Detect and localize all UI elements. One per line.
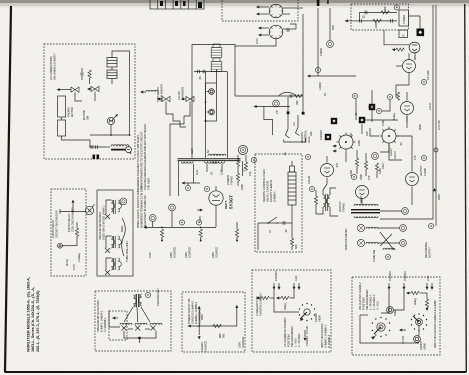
- wire V330: [329, 8, 331, 40]
- svg-text:180K: 180K: [240, 184, 244, 190]
- circled letter choke: [126, 147, 132, 155]
- arrow heater left: [183, 182, 200, 184]
- B+ line: [145, 226, 216, 228]
- rotary switch SW1: [299, 303, 315, 322]
- choke net1: [111, 200, 121, 214]
- resistor RB1: [160, 229, 163, 237]
- wires phasing: [124, 307, 133, 322]
- page border right: [465, 4, 467, 372]
- svg-text:5V: 5V: [210, 172, 214, 175]
- svg-text:50K: 50K: [294, 244, 298, 249]
- arrow up: [72, 203, 74, 207]
- pilot lamp L1: [207, 89, 215, 95]
- wire down left: [257, 223, 259, 250]
- svg-text:240V: 240V: [169, 252, 173, 258]
- jack spring 2: [296, 127, 300, 136]
- tuner box: [399, 10, 409, 26]
- svg-text:IF: IF: [402, 34, 406, 37]
- svg-text:5Y3GT: 5Y3GT: [229, 195, 234, 209]
- svg-text:AS SHOWN IN "PHONO": AS SHOWN IN "PHONO": [283, 317, 287, 347]
- ps stub up 2: [236, 308, 238, 326]
- svg-text:RECT.: RECT.: [224, 200, 228, 209]
- svg-text:6V6: 6V6: [331, 25, 335, 30]
- choke net3: [111, 258, 121, 270]
- tube out2 12AB5: [406, 165, 419, 196]
- svg-text:PHOTO RELAY: PHOTO RELAY: [67, 213, 71, 232]
- circled letter rect: [204, 186, 209, 191]
- connector JA1: [71, 87, 79, 96]
- circled ref RC3: [352, 93, 357, 98]
- wire T1 left down: [178, 161, 180, 196]
- ps stub up 1: [198, 309, 200, 326]
- motor M: [107, 114, 117, 124]
- svg-text:1 - AUX: 1 - AUX: [294, 338, 298, 347]
- tube AF AMP: [396, 53, 416, 85]
- svg-text:6V: 6V: [323, 93, 327, 96]
- svg-text:115V: 115V: [190, 148, 194, 154]
- resistor b2b: [426, 293, 428, 299]
- resistor RL1: [236, 158, 239, 166]
- AC connections dashed box: [44, 44, 135, 159]
- remote jack bracket: [284, 138, 306, 142]
- test point SP1: [400, 225, 407, 232]
- svg-text:FRONT: FRONT: [419, 341, 423, 350]
- svg-text:WURLITZER MODELS 1859-A, -(S),: WURLITZER MODELS 1859-A, -(S), 1863-A,: [27, 277, 31, 352]
- svg-text:2Meg: 2Meg: [413, 298, 417, 305]
- svg-text:SOURCE: SOURCE: [215, 247, 219, 258]
- svg-text:6BN4: 6BN4: [413, 53, 417, 60]
- resistor RL3: [236, 173, 239, 181]
- svg-text:.05: .05: [283, 152, 287, 156]
- resistor RR1: [396, 92, 399, 100]
- choke coil: [111, 145, 123, 147]
- svg-text:SOURCE: SOURCE: [204, 341, 208, 352]
- wire V227: [227, 72, 229, 158]
- ballast cylinder B2: [211, 58, 222, 72]
- circled ref au6: [305, 154, 310, 159]
- resistor ROT: [314, 196, 317, 204]
- svg-text:TUNER: TUNER: [402, 15, 406, 24]
- wire steps to jack: [264, 107, 273, 136]
- svg-text:6.3V: 6.3V: [195, 169, 199, 175]
- pot P-b3: [414, 336, 421, 343]
- svg-text:2.2Meg: 2.2Meg: [77, 253, 81, 262]
- rail link: [359, 12, 361, 21]
- wire motor loop: [110, 125, 112, 135]
- svg-text:230V: 230V: [184, 252, 188, 258]
- capacitor CI3: [391, 19, 393, 23]
- svg-text:5W: 5W: [222, 334, 226, 338]
- black square pad P1: [369, 104, 375, 110]
- svg-text:SW: SW: [86, 115, 90, 120]
- svg-text:12BA6: 12BA6: [319, 48, 323, 56]
- svg-text:XP: XP: [275, 110, 279, 114]
- wires in1: [273, 290, 275, 299]
- svg-text:PHONO: PHONO: [388, 271, 392, 281]
- interlock tube socket S1: [256, 4, 303, 18]
- svg-text:TONE SW: TONE SW: [372, 249, 376, 262]
- relay transistor PR1: [85, 205, 94, 215]
- black square pad P2: [359, 117, 365, 123]
- svg-text:PANEL LIGHTS, SOCKETS AND: PANEL LIGHTS, SOCKETS AND: [136, 190, 140, 228]
- svg-text:3.3: 3.3: [292, 122, 296, 126]
- resistor 2.2meg in1: [261, 296, 269, 299]
- svg-text:7Ω: 7Ω: [243, 169, 247, 172]
- circled ref T3: [145, 292, 150, 297]
- lower rail: [356, 20, 397, 22]
- bus V436: [435, 5, 437, 226]
- circled letter T1: [251, 157, 256, 162]
- T2b coil right: [326, 195, 330, 207]
- circled ref RC2: [376, 108, 381, 113]
- power box open frame: [192, 45, 235, 159]
- svg-text:SPEAKER NETWORKS: SPEAKER NETWORKS: [98, 212, 102, 240]
- speaker networks box: [97, 190, 133, 276]
- svg-text:INPUT ON CHASSIS: INPUT ON CHASSIS: [320, 323, 324, 348]
- svg-text:3 - AUX: 3 - AUX: [376, 301, 380, 310]
- svg-text:2Meg: 2Meg: [283, 303, 287, 310]
- tube ref left: [238, 145, 247, 154]
- svg-text:12BA6: 12BA6: [318, 82, 322, 90]
- rotary switch SW3: [411, 313, 427, 331]
- svg-text:245V: 245V: [211, 252, 215, 258]
- svg-text:POWER: POWER: [226, 175, 230, 185]
- node dot: [205, 120, 207, 122]
- svg-text:ON CHASSIS 1HM94-2: ON CHASSIS 1HM94-2: [358, 282, 362, 310]
- svg-text:SPEAKER WITH CHASSIS: SPEAKER WITH CHASSIS: [96, 300, 100, 332]
- inner box arrow: [113, 317, 118, 319]
- capacitor CI2: [360, 19, 362, 23]
- speaker PH1: [120, 323, 132, 330]
- svg-text:MOTOR: MOTOR: [70, 107, 74, 117]
- tube AF2: [409, 42, 420, 53]
- svg-text:10K: 10K: [365, 131, 369, 136]
- T2 coil top: [354, 204, 366, 206]
- wire cylinder down: [216, 69, 218, 83]
- svg-text:CHASSIS 1HM34-2: CHASSIS 1HM34-2: [259, 293, 263, 316]
- svg-text:13AJ7: 13AJ7: [428, 102, 432, 110]
- svg-text:115V: 115V: [148, 252, 152, 258]
- resistor RI1: [381, 11, 389, 14]
- resistor RB4: [235, 229, 238, 237]
- speaker SP2: [357, 239, 364, 246]
- svg-text:NON-POLARIZED: NON-POLARIZED: [344, 228, 348, 250]
- IF label box: [399, 30, 408, 38]
- svg-text:VIEW: VIEW: [318, 315, 322, 322]
- svg-text:230V: 230V: [238, 342, 242, 348]
- phono to cb: [304, 330, 306, 337]
- ps arrow down: [198, 326, 200, 335]
- circled ref BP1: [179, 220, 184, 225]
- test point TP276: [273, 100, 280, 107]
- bus arrow: [433, 188, 436, 191]
- circled ref out: [421, 155, 426, 160]
- polarized marks: [93, 155, 96, 160]
- svg-text:OUTPUT: OUTPUT: [338, 201, 342, 212]
- connector J1: [157, 96, 170, 108]
- wire staircase: [166, 108, 186, 127]
- speaker phasing dashed box: [95, 291, 171, 351]
- ballast cylinder A2: [107, 70, 117, 79]
- svg-text:2.2Meg NOT ON: 2.2Meg NOT ON: [255, 296, 259, 316]
- resistor RI2: [373, 19, 381, 22]
- svg-text:REMOTE CONTROL USED: REMOTE CONTROL USED: [262, 169, 266, 202]
- coil SP1: [366, 227, 378, 229]
- svg-text:AF AMP: AF AMP: [426, 70, 430, 80]
- svg-text:REMOTE: REMOTE: [300, 132, 304, 143]
- svg-text:CHASSIS 1HM94-2,: CHASSIS 1HM94-2,: [191, 300, 195, 324]
- remote control dashed box: [255, 154, 302, 252]
- test point SP2: [400, 240, 407, 247]
- svg-text:POSITION: POSITION: [362, 297, 366, 310]
- circled ref OT: [309, 186, 314, 191]
- svg-text:TRIP RELAY: TRIP RELAY: [156, 87, 160, 102]
- svg-text:ON 1HM93-5 1HM29-7: ON 1HM93-5 1HM29-7: [53, 53, 57, 80]
- interlock dashed box: [222, 0, 298, 21]
- svg-text:OUTPUT: OUTPUT: [428, 247, 432, 258]
- power supply dashed box: [182, 292, 245, 352]
- speaker PH2: [135, 323, 147, 330]
- svg-text:300: 300: [383, 6, 387, 11]
- circled ref AF: [421, 79, 426, 84]
- resistor 2meg b2: [411, 291, 419, 294]
- svg-text:PHOTO RELAY: PHOTO RELAY: [51, 219, 55, 238]
- svg-text:2 - PHONO: 2 - PHONO: [297, 334, 301, 347]
- connector JA2: [87, 86, 99, 96]
- rectifier tube V-rect: [209, 191, 223, 205]
- svg-text:FRONT: FRONT: [314, 313, 318, 322]
- wire T1 mid down: [206, 164, 208, 172]
- svg-text:1HM96-1 1HM96-2: 1HM96-1 1HM96-2: [194, 301, 198, 324]
- svg-text:CONTROL: CONTROL: [304, 130, 308, 143]
- tube socket U2: [337, 133, 356, 152]
- connector J2: [181, 96, 194, 108]
- speaker X2: [105, 248, 110, 253]
- phono input dashed box 2: [352, 277, 440, 355]
- svg-text:RECORDING: RECORDING: [424, 242, 428, 258]
- resistor cluster RR3: [364, 161, 367, 169]
- svg-text:266-1, -(S, 267-1, 276-1, -(S,: 266-1, -(S, 267-1, 276-1, -(S, 7269(S): [36, 290, 40, 352]
- wires net: [106, 200, 111, 214]
- svg-text:SOURCE: SOURCE: [188, 247, 192, 258]
- svg-text:JACK: JACK: [307, 136, 311, 143]
- svg-text:PHASING NET: PHASING NET: [156, 288, 160, 306]
- resistor RL2: [244, 162, 247, 170]
- T2b wires: [323, 184, 327, 195]
- svg-text:A7: A7: [268, 229, 272, 233]
- wire staircase2: [179, 108, 190, 124]
- svg-text:TRACING AND REPLACEMENT AND MA: TRACING AND REPLACEMENT AND MAY NOT NECE…: [143, 124, 147, 190]
- wire V288: [287, 97, 289, 112]
- svg-text:1Meg: 1Meg: [392, 113, 396, 120]
- svg-text:500Ω: 500Ω: [120, 226, 124, 232]
- svg-text:PHONO: PHONO: [403, 271, 407, 281]
- svg-text:MOTOR: MOTOR: [82, 110, 86, 120]
- test point A: [315, 67, 320, 72]
- lamp box: [206, 83, 217, 121]
- jumper arc: [279, 92, 296, 95]
- T2 coil bottom: [354, 216, 366, 218]
- wire T1 right down: [242, 161, 244, 176]
- node circle on bus: [434, 148, 438, 152]
- wire below box: [384, 30, 409, 45]
- phasing transformer T3: [136, 294, 137, 307]
- test point T2: [402, 208, 409, 215]
- svg-text:NUMBERED TERMINALS ON CON-: NUMBERED TERMINALS ON CON-: [140, 185, 144, 228]
- pilot lamp L2: [207, 109, 215, 115]
- resistor PR: [75, 228, 78, 236]
- wire socket to tube: [396, 136, 412, 165]
- test point TP-B1: [149, 215, 156, 222]
- svg-text:117V: 117V: [255, 38, 259, 44]
- wire H76: [309, 75, 356, 77]
- ballast cylinder B1: [211, 44, 222, 58]
- svg-text:470K: 470K: [381, 120, 385, 126]
- speaker SP1: [357, 224, 364, 231]
- svg-text:NUMBERS ASSIGNED TO COILS, SWI: NUMBERS ASSIGNED TO COILS, SWITCHES,: [136, 134, 140, 190]
- capacitor CI1: [365, 11, 367, 15]
- wire V170: [170, 124, 179, 196]
- svg-text:INPUT ON CHASSIS 1HM94-2 & 1HM: INPUT ON CHASSIS 1HM94-2 & 1HM96: [433, 300, 437, 348]
- relay box B: [58, 120, 66, 136]
- svg-text:SW GROUNDED:: SW GROUNDED:: [290, 326, 294, 347]
- svg-text:SOURCE: SOURCE: [241, 337, 245, 348]
- svg-text:680: 680: [218, 333, 222, 338]
- capacitor CA1: [81, 72, 83, 76]
- svg-text:390: 390: [295, 100, 299, 105]
- T1 primary coil above: [208, 154, 220, 156]
- svg-text:.02: .02: [399, 142, 403, 146]
- capacitor choke2: [96, 145, 98, 149]
- upper rail: [360, 11, 398, 13]
- svg-text:15K: 15K: [248, 171, 252, 176]
- right vertical: [129, 51, 131, 135]
- speaker X3: [105, 270, 110, 275]
- svg-text:270: 270: [413, 155, 417, 160]
- choke core: [111, 149, 125, 151]
- svg-text:SW GROUNDED: SW GROUNDED: [365, 290, 369, 310]
- tube 12AU6: [321, 156, 334, 184]
- svg-text:EXCEPT 1HM94 &: EXCEPT 1HM94 &: [269, 180, 273, 202]
- svg-text:.02: .02: [284, 229, 288, 233]
- resistor RA1: [88, 70, 91, 78]
- interlock tube socket S2: [235, 24, 296, 46]
- circled ref tone: [385, 254, 390, 259]
- speaker X1: [105, 214, 110, 219]
- wire H106: [255, 106, 290, 108]
- wire H96 to V303: [235, 95, 303, 97]
- wires acbox: [61, 117, 63, 120]
- wire tuner right: [409, 16, 421, 29]
- svg-text:47K: 47K: [367, 175, 371, 180]
- svg-text:33K: 33K: [309, 131, 313, 136]
- page border bottom: [5, 371, 467, 373]
- T1 secondary coil left: [181, 161, 193, 163]
- svg-text:12AB5: 12AB5: [423, 168, 427, 176]
- svg-text:100K: 100K: [378, 168, 382, 174]
- black diamond pad: [417, 29, 425, 37]
- svg-text:.05: .05: [362, 15, 366, 19]
- svg-text:12AU6: 12AU6: [307, 175, 311, 184]
- resistor on H96: [294, 94, 302, 97]
- tube FM: [401, 92, 414, 122]
- page border left: [5, 6, 11, 372]
- svg-text:AUX: AUX: [294, 275, 298, 281]
- svg-text:180K: 180K: [359, 174, 363, 180]
- phono input dashed box 1: [252, 270, 331, 352]
- ballast cylinder A: [107, 58, 117, 68]
- tube out1: [356, 186, 369, 206]
- circle right: [428, 223, 433, 228]
- wires left res: [237, 155, 239, 158]
- to cb arrow: [400, 329, 406, 331]
- coil tone: [383, 248, 395, 250]
- wire V362: [361, 124, 363, 134]
- power transformer T1 core: [178, 158, 241, 160]
- wires socket: [380, 145, 389, 152]
- svg-text:AUX: AUX: [426, 275, 430, 281]
- wire V205: [205, 72, 207, 158]
- svg-text:TUBE SIDE ONLY: TUBE SIDE ONLY: [125, 240, 129, 262]
- relay coil: [146, 90, 158, 92]
- IF network dashed box: [351, 4, 409, 30]
- capacitor C-line2: [203, 70, 205, 74]
- svg-text:THE UNIT.: THE UNIT.: [147, 177, 151, 190]
- output transformer T2 core: [351, 209, 380, 210]
- svg-text:117V: 117V: [72, 264, 76, 270]
- resistor 2meg in1: [281, 296, 289, 299]
- wire PR H: [60, 211, 85, 213]
- svg-text:PHONO: PHONO: [319, 130, 323, 140]
- speaker PH3: [150, 323, 162, 330]
- resistor RB2: [199, 229, 202, 237]
- svg-text:VIEW: VIEW: [423, 343, 427, 350]
- svg-text:CH ON: CH ON: [177, 91, 181, 100]
- crossing wires: [380, 232, 394, 250]
- choke net2: [111, 236, 121, 248]
- top scan band: [0, 0, 469, 3]
- svg-text:TRANS: TRANS: [230, 176, 234, 185]
- capacitor C-line: [198, 70, 200, 74]
- svg-text:SOCKET ON CHASSIS: SOCKET ON CHASSIS: [55, 210, 59, 238]
- wire T1 left2 down: [193, 164, 195, 183]
- wire V372: [371, 90, 373, 104]
- svg-text:SOURCE: SOURCE: [173, 247, 177, 258]
- svg-text:500K: 500K: [418, 124, 422, 130]
- T1 secondary coil mid: [205, 161, 217, 163]
- svg-text:PHONO: PHONO: [200, 342, 204, 352]
- resistor 50K: [290, 238, 293, 246]
- svg-text:1 - PHONO 1: 1 - PHONO 1: [369, 294, 373, 310]
- plug tick: [59, 209, 61, 214]
- circled ref RC1: [387, 94, 392, 99]
- svg-text:A 1HM298-1: A 1HM298-1: [103, 317, 107, 332]
- wires inputbox2: [381, 290, 389, 314]
- inner speaker dashed box: [109, 311, 127, 340]
- svg-text:1HM94-1, 1HM96-1,: 1HM94-1, 1HM96-1,: [324, 324, 328, 348]
- black tick top: [317, 0, 320, 6]
- relay box A: [58, 96, 66, 117]
- resistor cluster RR4: [375, 163, 378, 171]
- svg-text:12AX7: 12AX7: [389, 148, 393, 156]
- arrows into socket: [334, 145, 337, 147]
- capacitor choke1: [91, 145, 93, 149]
- svg-text:117V 60: 117V 60: [437, 120, 441, 130]
- svg-text:& 1HM96-2: & 1HM96-2: [327, 334, 331, 348]
- svg-text:USED ON CHASSIS 1HM9-1: USED ON CHASSIS 1HM9-1: [102, 205, 106, 240]
- svg-text:12AU7: 12AU7: [393, 150, 397, 159]
- svg-text:.01: .01: [354, 112, 358, 116]
